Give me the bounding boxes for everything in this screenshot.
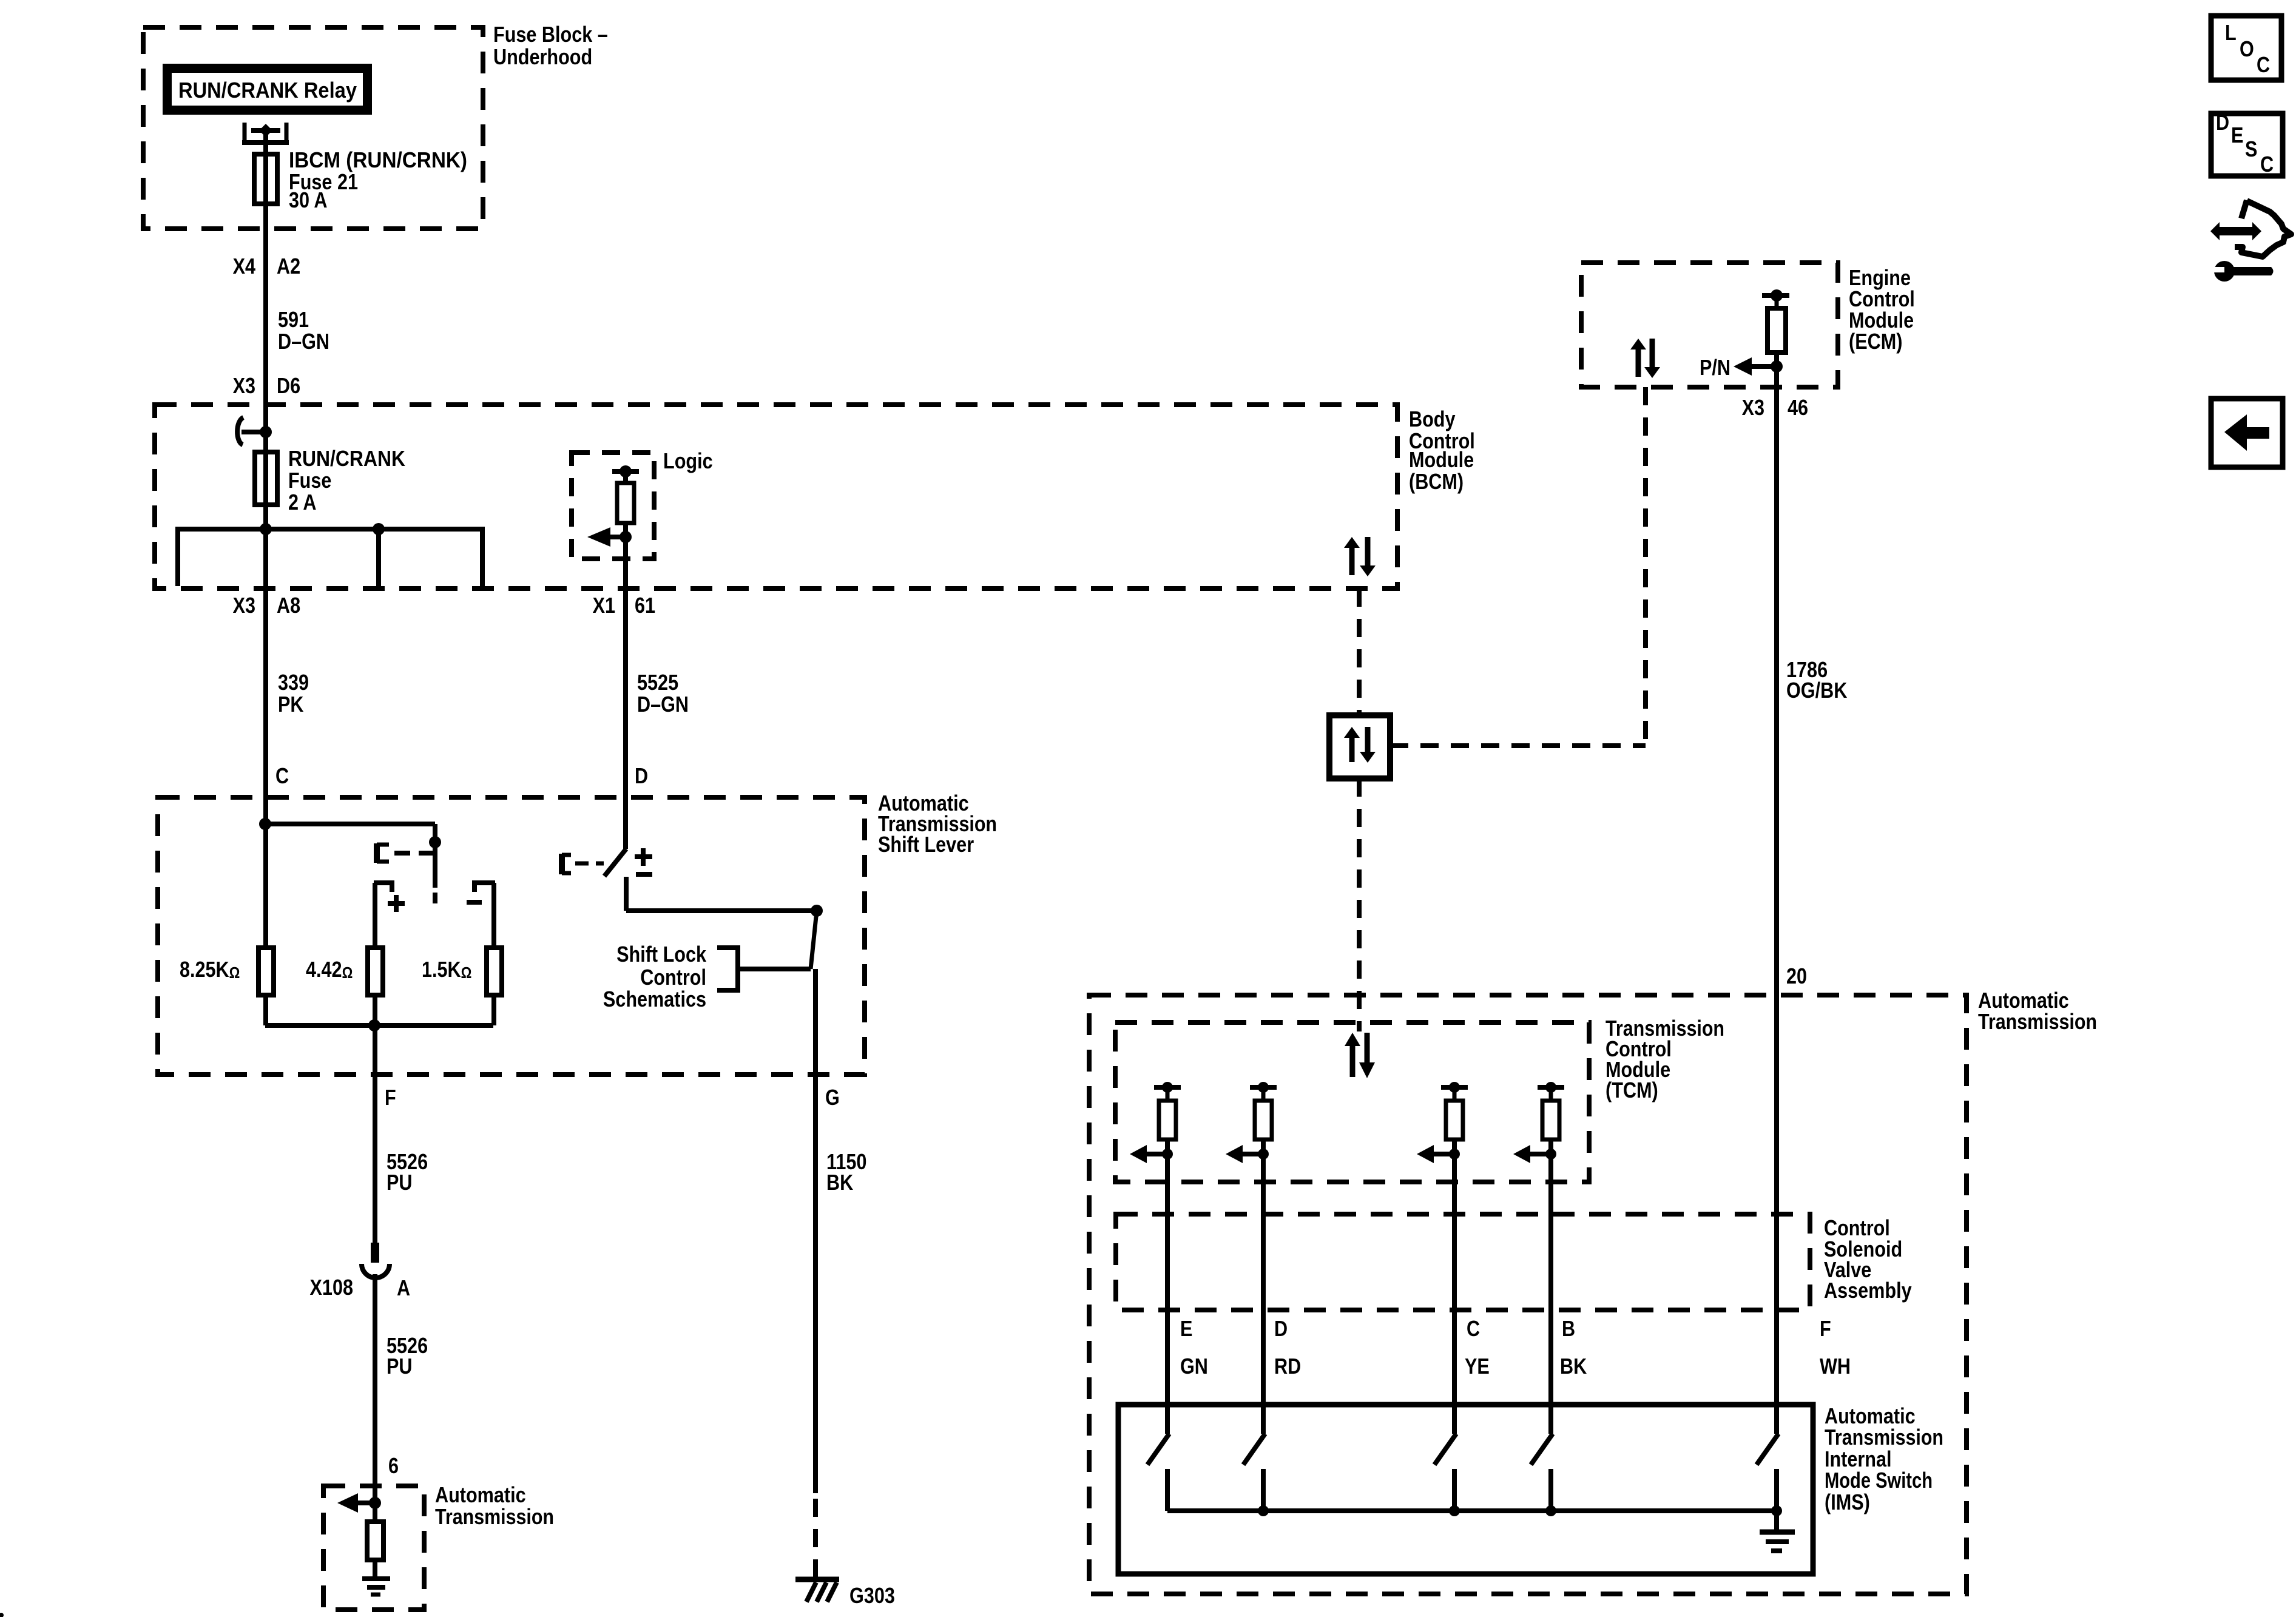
svg-text:X1: X1: [593, 593, 615, 618]
svg-text:Body: Body: [1409, 407, 1456, 431]
IMS internal ground: [1774, 1511, 1779, 1530]
svg-text:E: E: [2231, 123, 2243, 147]
splice box arrows: [1344, 727, 1360, 738]
svg-text:A8: A8: [277, 593, 300, 618]
resistor 1.5K: [487, 948, 502, 995]
svg-text:6: 6: [388, 1453, 399, 1478]
control solenoid valve assembly box: [1116, 1214, 1810, 1310]
svg-text:BK: BK: [1560, 1354, 1587, 1379]
svg-text:C: C: [2260, 152, 2274, 177]
svg-text:D6: D6: [277, 373, 300, 398]
Logic box: [572, 453, 654, 559]
svg-text:PK: PK: [278, 692, 304, 717]
TCM driver branch D: [1250, 1085, 1277, 1090]
svg-text:46: 46: [1788, 395, 1808, 420]
IMS switch blade D: [1243, 1434, 1265, 1465]
bus drop middle: [376, 529, 381, 586]
svg-text:X108: X108: [310, 1275, 354, 1300]
plus/minus mark: [635, 854, 652, 859]
svg-text:D: D: [2216, 110, 2229, 135]
junction: [369, 1497, 381, 1509]
wire to 1.5K resistor: [491, 883, 496, 948]
ground (chassis): [362, 1576, 390, 1581]
svg-text:30 A: 30 A: [289, 187, 328, 212]
serial data dashed wire splice to ECM: [1390, 743, 1646, 748]
back arrow: [2224, 414, 2269, 451]
wire logic to shift lever switch D: [623, 523, 628, 849]
svg-text:S: S: [2245, 137, 2257, 161]
serial data dashed wire ECM drop: [1643, 387, 1648, 746]
svg-text:(BCM): (BCM): [1409, 469, 1464, 494]
ECM pull-up resistor: [1762, 293, 1789, 298]
svg-text:20: 20: [1786, 964, 1807, 988]
svg-text:Assembly: Assembly: [1824, 1278, 1912, 1303]
ECM box: [1581, 263, 1838, 387]
ECM serial data arrows: [1630, 339, 1646, 349]
svg-text:PU: PU: [387, 1354, 413, 1379]
svg-text:X3: X3: [233, 373, 255, 398]
DESC icon box: [2211, 113, 2283, 176]
fuse block underhood box: [143, 27, 483, 229]
junction wiper: [429, 836, 441, 848]
svg-text:D–GN: D–GN: [278, 329, 329, 354]
serial data dashed wire BCM to splice: [1357, 589, 1362, 715]
automatic transmission box: [1089, 995, 1967, 1594]
connector X108 male pin: [371, 1243, 379, 1263]
svg-text:E: E: [1180, 1316, 1192, 1341]
svg-text:Schematics: Schematics: [603, 987, 706, 1011]
TCM serial data arrows: [1345, 1033, 1360, 1046]
junction D: [1258, 1505, 1269, 1516]
svg-text:G: G: [825, 1085, 840, 1110]
mechanical link E bracket (rotary switch): [374, 843, 380, 863]
bus drop right: [480, 529, 485, 586]
wire relay through BCM to shift lever (runs through fuses): [263, 130, 268, 948]
BCM serial data arrows: [1344, 537, 1360, 548]
svg-text:IBCM (RUN/CRNK): IBCM (RUN/CRNK): [289, 147, 467, 172]
IMS switch blade F: [1757, 1434, 1778, 1465]
fuse F21 IBCM 30A: [254, 154, 277, 204]
svg-text:RD: RD: [1274, 1354, 1301, 1379]
junction bus / wire: [260, 523, 272, 535]
svg-text:C: C: [1467, 1316, 1480, 1341]
TCM driver branch C: [1441, 1085, 1468, 1090]
svg-text:Transmission: Transmission: [435, 1504, 554, 1529]
IMS common bus: [1167, 1508, 1777, 1513]
svg-text:L: L: [2225, 20, 2237, 45]
adjust/hand icon: wrench: [2226, 267, 2274, 275]
junction C wire: [259, 818, 271, 830]
svg-text:61: 61: [635, 593, 655, 618]
svg-text:591: 591: [278, 307, 309, 332]
BCM box: [155, 405, 1397, 589]
signal arrow: [337, 1493, 358, 1513]
svg-text:A: A: [397, 1275, 410, 1300]
LOC icon box: [2211, 16, 2281, 80]
svg-text:Transmission: Transmission: [1978, 1009, 2097, 1034]
svg-text:O: O: [2240, 36, 2254, 61]
relay pin bracket: [243, 123, 247, 145]
svg-text:BK: BK: [826, 1170, 853, 1195]
shift lock switch blade: [604, 849, 626, 876]
svg-text:C: C: [2257, 52, 2270, 77]
wire to 4.42 ohm resistor: [373, 883, 377, 948]
svg-text:Transmission: Transmission: [1825, 1425, 1943, 1450]
dashed wire to G303: [813, 1499, 818, 1578]
fuse RUN/CRANK 2A: [255, 452, 277, 505]
resistor bottom bus: [265, 1023, 493, 1028]
svg-text:F: F: [1820, 1316, 1831, 1341]
wire 1786 ECM to IMS pin F: [1774, 353, 1779, 1434]
svg-text:Control: Control: [640, 965, 706, 990]
svg-text:RUN/CRANK Relay: RUN/CRANK Relay: [178, 78, 357, 103]
svg-text:YE: YE: [1465, 1354, 1490, 1379]
svg-text:Underhood: Underhood: [493, 44, 592, 69]
back arrow icon box: [2211, 399, 2283, 467]
bus drop left: [175, 529, 180, 586]
IMS switch blade B: [1531, 1434, 1553, 1465]
svg-text:D: D: [635, 763, 648, 788]
mechanical link E bracket (shift lock switch): [559, 854, 565, 874]
svg-text:Fuse Block –: Fuse Block –: [493, 22, 608, 47]
svg-text:B: B: [1562, 1316, 1575, 1341]
logic output arrow: [587, 527, 610, 547]
svg-text:D–GN: D–GN: [637, 692, 689, 717]
wire G to G303: [813, 969, 818, 1493]
junction G wire: [811, 905, 823, 917]
svg-text:PU: PU: [387, 1170, 413, 1195]
svg-text:Shift Lever: Shift Lever: [878, 832, 974, 857]
wiper dash: [433, 893, 437, 903]
link to shift lock pointer: [811, 911, 817, 969]
svg-text:(ECM): (ECM): [1849, 329, 1902, 354]
svg-text:Mode Switch: Mode Switch: [1825, 1468, 1933, 1493]
svg-text:RUN/CRANK: RUN/CRANK: [288, 446, 405, 471]
IMS box: [1118, 1405, 1813, 1574]
svg-text:Fuse: Fuse: [288, 468, 331, 493]
page corner mark: [0, 1613, 4, 1617]
svg-text:Shift Lock: Shift Lock: [616, 942, 707, 967]
TCM driver branch E: [1154, 1085, 1181, 1090]
svg-text:Automatic: Automatic: [435, 1482, 526, 1507]
svg-text:Logic: Logic: [663, 448, 713, 473]
ground G303: [795, 1577, 839, 1582]
svg-text:X3: X3: [1742, 395, 1764, 420]
svg-text:X3: X3: [233, 593, 255, 618]
TCM driver branch B: [1538, 1085, 1564, 1090]
contact bracket - side: [472, 880, 495, 885]
P/N signal arrow: [1734, 357, 1752, 376]
minus mark: [467, 900, 482, 905]
svg-text:Module: Module: [1409, 447, 1474, 472]
svg-text:P/N: P/N: [1700, 355, 1730, 380]
svg-text:OG/BK: OG/BK: [1786, 678, 1847, 703]
connector X108 female socket: [362, 1264, 390, 1278]
circuit breaker symbol: [237, 417, 243, 445]
IMS switch blade E: [1147, 1434, 1169, 1465]
junction F: [1771, 1505, 1782, 1516]
shift lever box: [158, 797, 865, 1075]
svg-text:5525: 5525: [637, 670, 678, 695]
resistor internal: [367, 1522, 383, 1560]
adjust/hand icon: double arrow: [2210, 222, 2261, 240]
svg-text:G303: G303: [849, 1583, 895, 1608]
logic resistor R: [612, 469, 639, 474]
svg-text:X4: X4: [233, 254, 255, 279]
IMS switch blade C: [1434, 1434, 1456, 1465]
wire F to X108: [373, 1025, 377, 1243]
relay K RUN/CRANK Relay: [163, 64, 372, 115]
automatic transmission box (park neutral switch): [323, 1486, 424, 1610]
TCM box: [1115, 1022, 1589, 1182]
contact bracket + side: [374, 880, 394, 885]
mechanical link dashes: [394, 851, 433, 856]
svg-text:F: F: [385, 1085, 396, 1110]
resistor 4.42: [368, 948, 383, 995]
junction on run/crank wire: [260, 426, 272, 438]
mechanical link dashes: [575, 862, 604, 866]
svg-text:(TCM): (TCM): [1606, 1078, 1658, 1102]
junction bottom bus: [368, 1019, 380, 1031]
serial data dashed wire splice to TCM: [1357, 778, 1362, 1031]
svg-text:(IMS): (IMS): [1825, 1490, 1870, 1514]
BCM internal bus: [175, 527, 485, 532]
junction C: [1449, 1505, 1460, 1516]
adjust/hand icon: hand outline: [2235, 200, 2291, 257]
svg-text:C: C: [275, 763, 289, 788]
wire blade to G node: [624, 877, 629, 911]
wire to rotary switch wiper: [265, 822, 435, 826]
serial data splice box: [1329, 715, 1390, 778]
svg-text:A2: A2: [277, 254, 300, 279]
svg-text:D: D: [1274, 1316, 1288, 1341]
plus mark: [388, 901, 405, 906]
svg-text:2 A: 2 A: [288, 490, 317, 515]
junction B: [1545, 1505, 1556, 1516]
shift lock control schematics pointer bracket: [735, 945, 740, 993]
wire X108 to automatic transmission: [373, 1274, 377, 1522]
resistor 8.25K: [258, 948, 274, 995]
svg-text:339: 339: [278, 670, 309, 695]
svg-text:WH: WH: [1820, 1354, 1851, 1379]
svg-text:GN: GN: [1180, 1354, 1208, 1379]
